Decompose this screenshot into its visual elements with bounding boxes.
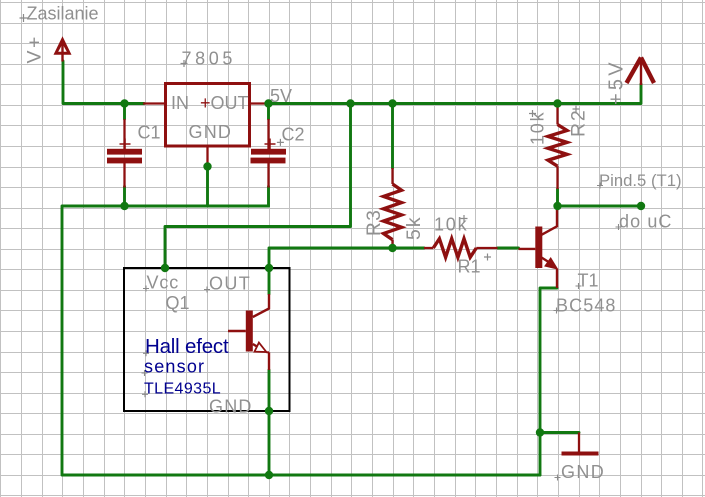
- svg-text:7805: 7805: [182, 49, 236, 69]
- svg-text:BC548: BC548: [556, 296, 617, 316]
- svg-text:Pind.5 (T1): Pind.5 (T1): [599, 171, 682, 190]
- svg-text:IN: IN: [171, 93, 189, 113]
- regulator IC1 7805 body: [166, 84, 250, 147]
- pin 7805 GND: [206, 146, 208, 167]
- wire hall emitter inside box: [268, 370, 271, 411]
- node do uC end: [637, 202, 645, 210]
- wire ground bus left and bottom rail: [62, 206, 540, 475]
- wire OUT node to R1: [269, 248, 424, 268]
- wire to GND symbol: [540, 431, 579, 434]
- junction hall OUT pin: [265, 264, 273, 272]
- svg-text:T1: T1: [578, 271, 599, 291]
- pin 7805 OUT: [250, 102, 269, 104]
- junction emitter ground: [536, 428, 544, 436]
- junction rail Vcc feed: [346, 99, 354, 107]
- wire R2 bottom to do uC: [558, 205, 642, 208]
- wire V+ supply to rail: [63, 61, 144, 104]
- wire R3 top: [391, 104, 394, 169]
- svg-text:C2: C2: [282, 125, 305, 145]
- svg-text:do uC: do uC: [619, 212, 673, 232]
- svg-text:5V: 5V: [270, 86, 292, 106]
- ground symbol: [562, 433, 599, 454]
- resistor R2: [548, 106, 567, 190]
- wire T1 emitter to ground: [540, 288, 557, 475]
- svg-text:10k: 10k: [434, 215, 468, 235]
- svg-text:C1: C1: [138, 123, 161, 143]
- junction R2 bottom: [553, 202, 561, 210]
- svg-text:R1: R1: [458, 257, 481, 277]
- junction rail C2/OUT: [264, 99, 272, 107]
- svg-text:5k: 5k: [403, 215, 425, 240]
- svg-text:Q1: Q1: [166, 293, 190, 313]
- svg-text:Hall efect: Hall efect: [145, 335, 229, 358]
- capacitor C2: [251, 119, 287, 188]
- svg-text:GND: GND: [189, 122, 233, 142]
- junction rail R2: [553, 99, 561, 107]
- svg-text:TLE4935L: TLE4935L: [144, 381, 221, 398]
- junction hall GND pin: [265, 407, 273, 415]
- wire hall OUT inside box: [268, 268, 271, 294]
- svg-text:+OUT: +OUT: [200, 93, 249, 113]
- wire C2 branch bottom: [267, 187, 270, 207]
- junction R3 bottom: [388, 244, 396, 252]
- junction 7805 GND: [203, 162, 211, 170]
- wire 7805 GND to ground rail: [206, 167, 209, 207]
- wire rail right of 7805: [269, 84, 642, 104]
- resistor R1: [424, 239, 498, 258]
- pin 7805 IN: [144, 102, 166, 104]
- svg-text:R3: R3: [364, 209, 385, 236]
- svg-text:Vcc: Vcc: [147, 273, 180, 293]
- wire C1 branch top: [123, 104, 126, 120]
- wire R2 bottom segment: [556, 189, 559, 206]
- junction ground C1: [120, 202, 128, 210]
- hall sensor Q1 body: [124, 268, 290, 411]
- resistor R3: [384, 168, 402, 248]
- svg-text:OUT: OUT: [209, 274, 251, 294]
- junction rail C1: [120, 99, 128, 107]
- wire Vcc feed to hall sensor: [165, 104, 351, 269]
- junction rail R3: [388, 99, 396, 107]
- svg-text:R2: R2: [568, 108, 590, 137]
- junction bottom rail: [265, 471, 273, 479]
- transistor T1: [519, 209, 558, 288]
- wire C2 branch top: [267, 104, 270, 120]
- svg-text:sensor: sensor: [144, 357, 205, 377]
- wire hall GND to bottom rail: [268, 411, 271, 475]
- junction hall Vcc pin: [161, 264, 169, 272]
- wire C1 branch bottom: [123, 187, 126, 207]
- wire R1 to T1 base: [498, 247, 519, 250]
- capacitor C1: [107, 119, 142, 188]
- power symbol +5V arrow: [627, 58, 655, 86]
- svg-text:10k: 10k: [528, 111, 548, 145]
- transistor inside hall sensor: [228, 294, 269, 370]
- svg-text:GND: GND: [209, 397, 253, 417]
- svg-text:GND: GND: [561, 462, 605, 482]
- svg-text:Zasilanie: Zasilanie: [27, 4, 99, 24]
- svg-text:V+: V+: [24, 34, 46, 63]
- svg-text:+5V: +5V: [606, 59, 628, 105]
- power symbol V+: [54, 36, 72, 61]
